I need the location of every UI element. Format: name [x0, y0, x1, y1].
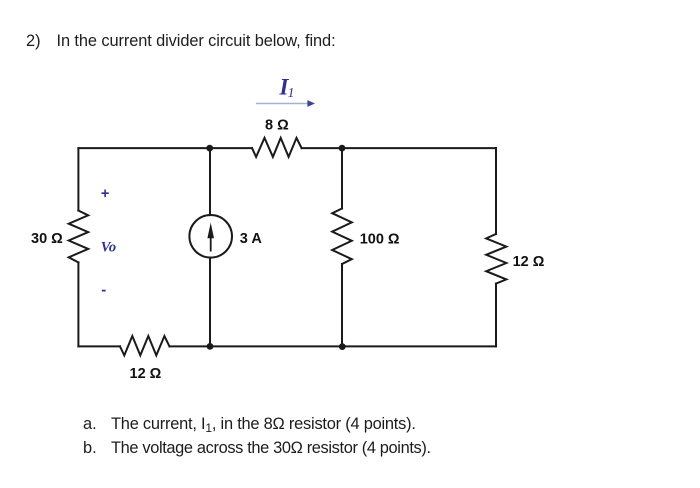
wire left vertical bottom [77, 262, 79, 346]
svg-text:30 Ω: 30 Ω [31, 231, 63, 247]
wire bottom left segment [78, 345, 120, 347]
node junction dot bottom right [339, 343, 346, 350]
wire right vertical bottom [495, 284, 497, 347]
problem statement heading [26, 32, 41, 51]
svg-text:Vo: Vo [101, 240, 116, 256]
node junction dot bottom left [207, 343, 214, 350]
wire 100ohm branch upper [341, 148, 343, 208]
svg-text:+: + [101, 186, 109, 202]
svg-text:100 Ω: 100 Ω [360, 231, 400, 247]
wire bottom right segment [170, 345, 497, 347]
wire middle branch lower [209, 258, 211, 347]
svg-text:8 Ω: 8 Ω [265, 118, 289, 134]
node junction dot top left [206, 145, 213, 152]
svg-text:-: - [101, 282, 106, 299]
wire top right segment [302, 147, 496, 149]
resistor R 12ohm (vertical, right) [486, 234, 506, 284]
svg-text:12 Ω: 12 Ω [130, 366, 162, 382]
wire 100ohm branch lower [341, 264, 343, 346]
wire left vertical top [77, 148, 79, 210]
resistor R 100ohm (vertical, middle) [332, 209, 352, 265]
question item a [83, 415, 97, 434]
node junction dot top right [339, 145, 346, 152]
wire right vertical top [495, 148, 497, 234]
current source arrow (upward) [210, 235, 212, 252]
wire middle branch upper (current source branch) [209, 148, 211, 215]
wire top left segment [78, 147, 252, 149]
svg-text:12 Ω: 12 Ω [513, 254, 545, 270]
question item b [83, 439, 97, 458]
svg-text:3 A: 3 A [240, 231, 263, 247]
resistor R 12ohm (horizontal, bottom) [120, 336, 170, 355]
resistor R 30ohm (vertical, left) [69, 211, 89, 263]
current source I1 circle [189, 215, 232, 258]
svg-text:1: 1 [288, 85, 295, 100]
resistor R 8ohm (horizontal, top) [252, 138, 302, 157]
current direction arrow I1 (blue) [256, 100, 315, 107]
